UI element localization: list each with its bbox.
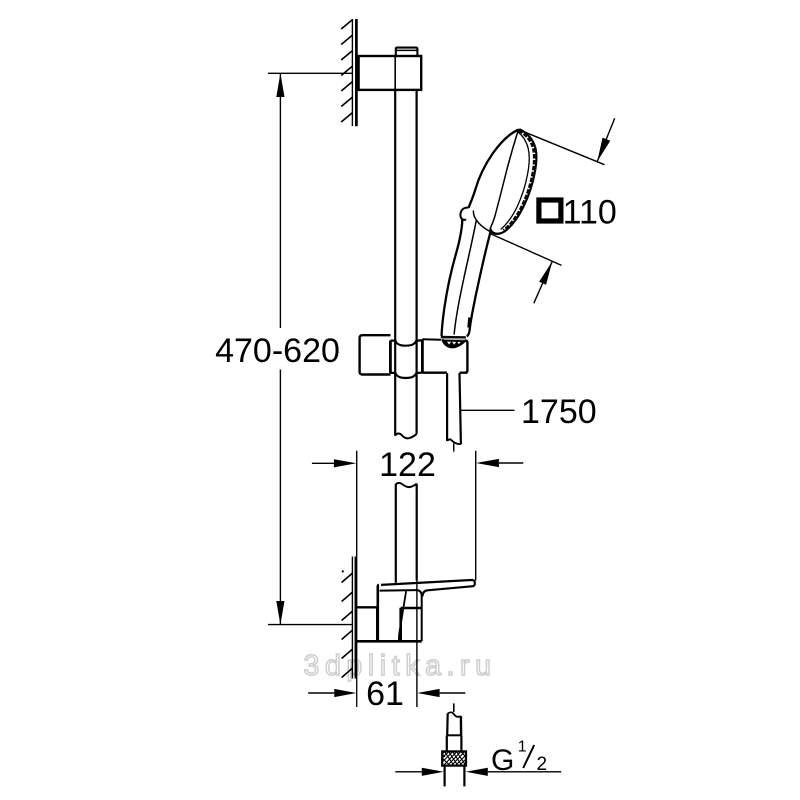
face bottom rim: [490, 227, 500, 234]
bottom bracket body: [357, 585, 422, 641]
svg-text:1: 1: [518, 739, 527, 756]
socket shaded opening: [442, 340, 465, 347]
leader line 1750: [460, 409, 515, 411]
handle notch: [469, 318, 470, 328]
glider left knob: [360, 335, 391, 374]
svg-text:122: 122: [379, 446, 436, 484]
handle bottom band: [441, 336, 466, 339]
knurled nut: [442, 751, 466, 765]
svg-text:110: 110: [563, 193, 617, 231]
wall (top) hatching: [341, 20, 352, 123]
top rail knob: [396, 48, 418, 56]
wall (bottom) lines: [351, 557, 353, 679]
ext line head top: [518, 129, 605, 164]
handle right edge: [467, 232, 491, 336]
hand shower head outline (left): [469, 130, 520, 208]
hose stub: [448, 712, 461, 716]
dimension G 1/2: [395, 771, 561, 773]
spray face inner edge line: [501, 131, 529, 229]
socket rim arc: [442, 339, 465, 347]
rail upper section: [394, 90, 396, 436]
handle left edge: [442, 219, 463, 336]
arrow head-bottom: [534, 261, 553, 303]
square symbol 110: [539, 200, 561, 221]
svg-text:470-620: 470-620: [215, 332, 340, 370]
handle middle ridge: [454, 220, 476, 335]
svg-text:1750: 1750: [521, 393, 597, 431]
spray face textured band: [504, 130, 535, 231]
bottom pipe: [444, 766, 446, 787]
rail lower section: [396, 483, 417, 487]
socket teeth gaps: [447, 342, 461, 345]
wall (bottom) hatching: [342, 573, 353, 678]
ferrule: [447, 734, 462, 736]
hose upper: [446, 373, 448, 441]
ext line 61 right (rail edge): [416, 581, 418, 708]
dimension 470-620: [268, 73, 353, 624]
ext line 61 left (wall): [356, 556, 358, 707]
bottom bracket shelf: [381, 580, 475, 597]
arrow head-top: [597, 118, 614, 161]
hose tip line: [453, 703, 455, 712]
ext line head bottom: [490, 234, 561, 266]
svg-text:61: 61: [366, 675, 404, 713]
dimension 122: [312, 451, 523, 581]
rail break (bottom of upper section): [395, 433, 417, 438]
neck line: [473, 211, 490, 232]
glider body: [390, 339, 467, 378]
top wall bracket: [359, 56, 422, 90]
hose break: [447, 439, 461, 444]
button clip: [460, 208, 468, 220]
spray face outer rim: [491, 129, 537, 233]
head inner contour: [491, 130, 519, 227]
dimension 61: [308, 692, 465, 694]
wall (top) lines: [351, 19, 353, 126]
svg-text:2: 2: [537, 754, 548, 775]
svg-text:G: G: [491, 744, 514, 777]
